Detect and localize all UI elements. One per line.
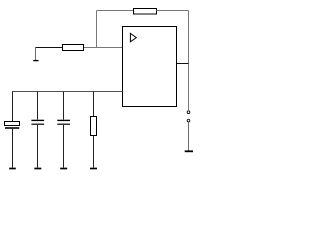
ground tick 2: [34, 168, 41, 170]
wire right feedback drop: [188, 11, 190, 111]
ground right tick: [185, 150, 193, 152]
wire supply bus: [12, 91, 123, 93]
capacitor C1 box plate: [5, 122, 20, 126]
wire C1 to ground: [12, 129, 14, 168]
node IN terminal stub: [35, 48, 37, 61]
wire port to ground: [188, 123, 190, 151]
wire input to R1: [36, 47, 63, 49]
wire branch C3: [63, 92, 65, 120]
capacitor C2 plate bottom: [31, 123, 44, 125]
ground input tick: [33, 60, 38, 62]
wire C2 to ground: [37, 125, 39, 168]
port P1 pin circle: [187, 111, 190, 114]
ground tick 1: [9, 168, 16, 170]
capacitor C1 flat plate: [5, 127, 19, 129]
wire R3 to ground: [93, 136, 95, 168]
wire R1 to op-amp input: [84, 47, 123, 49]
resistor R1: [63, 45, 84, 51]
wire branch C2: [37, 92, 39, 120]
wire branch C1: [12, 92, 14, 122]
capacitor C2 plate top: [31, 119, 44, 121]
wire branch R3: [93, 92, 95, 117]
ground tick 4: [90, 168, 97, 170]
resistor R3: [91, 117, 97, 136]
ground tick 3: [60, 168, 67, 170]
capacitor C3 plate top: [57, 119, 70, 121]
wire top to R2: [97, 10, 134, 12]
resistor R2: [134, 9, 157, 15]
wire feedback riser: [96, 11, 98, 48]
wire R2 to right corner: [157, 10, 189, 12]
wire output stub: [177, 63, 189, 65]
wire C3 to ground: [63, 125, 65, 168]
op-amp triangle marker: [130, 33, 136, 41]
op-amp U1: [123, 27, 177, 107]
capacitor C3 plate bottom: [57, 123, 70, 125]
port P2 pin circle: [187, 119, 190, 122]
